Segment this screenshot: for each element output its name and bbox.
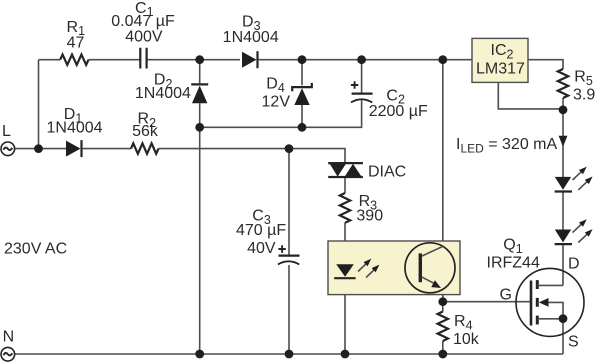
svg-text:2200 µF: 2200 µF bbox=[369, 103, 428, 120]
svg-text:1N4004: 1N4004 bbox=[135, 85, 191, 102]
svg-text:0.047 µF: 0.047 µF bbox=[111, 13, 175, 30]
svg-text:40V: 40V bbox=[247, 240, 276, 257]
wire bottom rail N line bbox=[14, 353, 563, 355]
current arrow I-LED bbox=[559, 136, 568, 147]
wire R3 to opto LED and down to bottom rail bbox=[344, 223, 346, 354]
optocoupler LED emission arrows bbox=[358, 259, 379, 278]
diode D1 bbox=[66, 140, 82, 157]
resistor R2 bbox=[131, 143, 158, 153]
svg-text:10k: 10k bbox=[453, 331, 480, 348]
node top rail at D4 bbox=[298, 55, 307, 64]
svg-text:3.9: 3.9 bbox=[573, 87, 595, 104]
node bottom rail at D2 vertical bbox=[195, 350, 204, 359]
node top rail at C2 bbox=[357, 55, 366, 64]
wire left vertical L to top rail bbox=[38, 60, 40, 149]
wire emitter node to gate bbox=[443, 288, 530, 302]
svg-text:L: L bbox=[2, 123, 11, 140]
wire D2 vertical branch bbox=[199, 60, 201, 354]
svg-text:1N4004: 1N4004 bbox=[223, 29, 279, 46]
wire C2 branch bbox=[302, 60, 362, 128]
node top rail at D2 bbox=[195, 55, 204, 64]
svg-text:400V: 400V bbox=[125, 29, 163, 46]
wire C3 branch bbox=[288, 149, 290, 354]
node top rail at collector bbox=[438, 55, 447, 64]
node mid rail at D2 bbox=[195, 123, 204, 132]
terminal N bbox=[1, 347, 15, 361]
svg-text:470 µF: 470 µF bbox=[236, 222, 286, 239]
wire L line bbox=[15, 149, 345, 164]
svg-text:IRFZ44: IRFZ44 bbox=[487, 254, 540, 271]
wire LED2 to MOSFET drain bbox=[562, 244, 564, 286]
DIAC bbox=[328, 163, 363, 177]
terminal L bbox=[1, 142, 15, 156]
svg-text:230V AC: 230V AC bbox=[4, 240, 67, 257]
IC IC2 LM317 regulator box bbox=[472, 38, 528, 82]
svg-text:D: D bbox=[568, 255, 580, 272]
wire D4 vertical branch bbox=[301, 60, 303, 128]
svg-text:LM317: LM317 bbox=[476, 60, 525, 77]
svg-text:12V: 12V bbox=[262, 94, 291, 111]
node MOSFET source-body junction bbox=[559, 314, 568, 323]
optocoupler box bbox=[328, 241, 460, 295]
optocoupler phototransistor bbox=[405, 243, 455, 293]
LED LED1 bbox=[555, 177, 572, 192]
node bottom rail at opto LED bbox=[341, 350, 350, 359]
capacitor C3 bbox=[278, 245, 300, 264]
MOSFET Q1 bbox=[516, 268, 584, 336]
node bottom rail at R4 bbox=[438, 350, 447, 359]
resistor R4 bbox=[438, 312, 448, 342]
LED2 emission arrows bbox=[573, 219, 593, 242]
diode D3 bbox=[242, 51, 258, 68]
wire mid rail between D2 and D4 nodes bbox=[200, 126, 302, 128]
node L line at C3 bbox=[285, 144, 294, 153]
node mid rail at D4 bbox=[298, 123, 307, 132]
svg-text:G: G bbox=[500, 287, 512, 304]
wire collector vertical from top rail to optocoupler bbox=[442, 60, 444, 247]
capacitor C1 bbox=[140, 48, 146, 69]
wire IC2 output to R5 bbox=[528, 60, 563, 69]
LED1 emission arrows bbox=[573, 167, 593, 190]
svg-text:1N4004: 1N4004 bbox=[47, 120, 103, 137]
svg-text:56k: 56k bbox=[132, 123, 159, 140]
resistor R3 bbox=[340, 193, 350, 223]
wire MOSFET source to bottom rail bbox=[562, 319, 564, 354]
optocoupler LED bbox=[334, 264, 355, 278]
resistor R1 bbox=[60, 55, 88, 65]
node emitter-gate-R4 bbox=[438, 297, 447, 306]
capacitor C2 bbox=[351, 81, 373, 102]
wire DIAC to R3 bbox=[344, 177, 346, 193]
node bottom rail at C3 bbox=[285, 350, 294, 359]
zener diode D4 bbox=[292, 83, 312, 105]
LED LED2 bbox=[555, 230, 572, 245]
svg-text:DIAC: DIAC bbox=[368, 163, 406, 180]
resistor R5 bbox=[558, 69, 568, 98]
node on L line at left vertical bbox=[34, 144, 43, 153]
svg-text:N: N bbox=[3, 328, 15, 345]
svg-text:47: 47 bbox=[67, 34, 85, 51]
wire top rail from left corner to IC2 bbox=[39, 59, 473, 61]
svg-text:390: 390 bbox=[356, 207, 383, 224]
svg-text:S: S bbox=[568, 334, 579, 351]
wire R4 branch bbox=[442, 302, 444, 354]
wire R5 bottom to LED chain bbox=[562, 98, 564, 177]
wire LED1 to LED2 bbox=[562, 192, 564, 230]
node R5 bottom bbox=[559, 105, 568, 114]
diode D2 bbox=[191, 84, 208, 103]
wire IC2 adj pin to R5 bottom node bbox=[498, 82, 563, 109]
